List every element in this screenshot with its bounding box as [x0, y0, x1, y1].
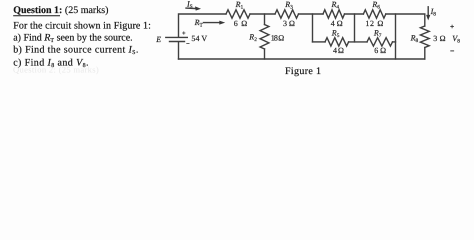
- svg-text:18 Ω: 18 Ω: [271, 33, 285, 42]
- wire: rail segment node B to R5: [313, 41, 326, 43]
- wire: bottom return wire: [179, 58, 425, 60]
- svg-text:b) Find the source current IS.: b) Find the source current IS.: [13, 44, 139, 56]
- wire: top segment R6 to corner and down to R8: [386, 14, 425, 26]
- battery minus sign: [186, 42, 189, 44]
- resistor R4 4ohm (top): [323, 10, 345, 18]
- svg-text:3 Ω: 3 Ω: [433, 34, 446, 43]
- wire: R2 bottom lead: [264, 49, 266, 59]
- svg-text:4 Ω: 4 Ω: [333, 46, 344, 55]
- svg-text:4 Ω: 4 Ω: [331, 19, 343, 28]
- wire: battery bottom lead: [178, 42, 180, 59]
- wire: top segment R3 to R4: [299, 13, 324, 15]
- battery source E top plate: [166, 36, 188, 38]
- svg-text:For the circuit shown in Figur: For the circuit shown in Figure 1:: [13, 21, 151, 32]
- wire: R8 bottom lead: [424, 48, 426, 60]
- node A lead from top wire: [264, 14, 266, 25]
- svg-text:6 Ω: 6 Ω: [374, 46, 386, 55]
- resistor R6 12ohm (top): [363, 10, 385, 18]
- wire: node D vertical (top wire to bottom wire): [395, 14, 397, 59]
- svg-text:54 V: 54 V: [191, 34, 207, 43]
- resistor R3 3ohm (top): [275, 10, 299, 18]
- heading underline: [13, 15, 60, 17]
- wire: top segment R1 to R3: [250, 13, 275, 15]
- resistor R5 4ohm (rail): [325, 38, 349, 46]
- resistor R7 6ohm (rail): [367, 38, 393, 46]
- svg-text:E: E: [155, 35, 161, 44]
- battery source E bottom plate: [170, 41, 185, 43]
- svg-text:12 Ω: 12 Ω: [365, 19, 383, 28]
- resistor R2 18ohm (vertical): [260, 25, 269, 50]
- wire: rail segment R7 to node D: [393, 41, 396, 43]
- battery plus sign: [182, 32, 185, 34]
- arrow I8 branch current: [427, 7, 429, 16]
- wire: node B vertical (top wire to rail): [312, 14, 314, 42]
- svg-text:Figure 1: Figure 1: [285, 66, 321, 77]
- svg-text:Question 2: (25 marks): Question 2: (25 marks): [13, 64, 99, 74]
- V8 minus sign: [450, 50, 454, 52]
- wire: top segment R4 to R6: [345, 13, 364, 15]
- svg-text:a) Find RT seen by the source.: a) Find RT seen by the source.: [13, 32, 132, 44]
- arrow RT looking-in: [204, 22, 221, 24]
- V8 plus sign: [450, 26, 454, 28]
- svg-text:Question 1: (25 marks): Question 1: (25 marks): [13, 5, 108, 16]
- wire: rail segment R5 to R7: [349, 41, 367, 43]
- wire: left vertical and top wire to R1: [179, 14, 227, 37]
- wire: node C vertical (middle): [354, 14, 356, 42]
- svg-text:3 Ω: 3 Ω: [283, 19, 295, 28]
- resistor R1 6ohm (top): [226, 10, 250, 18]
- resistor R8 3ohm (vertical right): [420, 26, 429, 48]
- svg-text:6 Ω: 6 Ω: [234, 19, 248, 28]
- arrow Is source current: [186, 7, 197, 10]
